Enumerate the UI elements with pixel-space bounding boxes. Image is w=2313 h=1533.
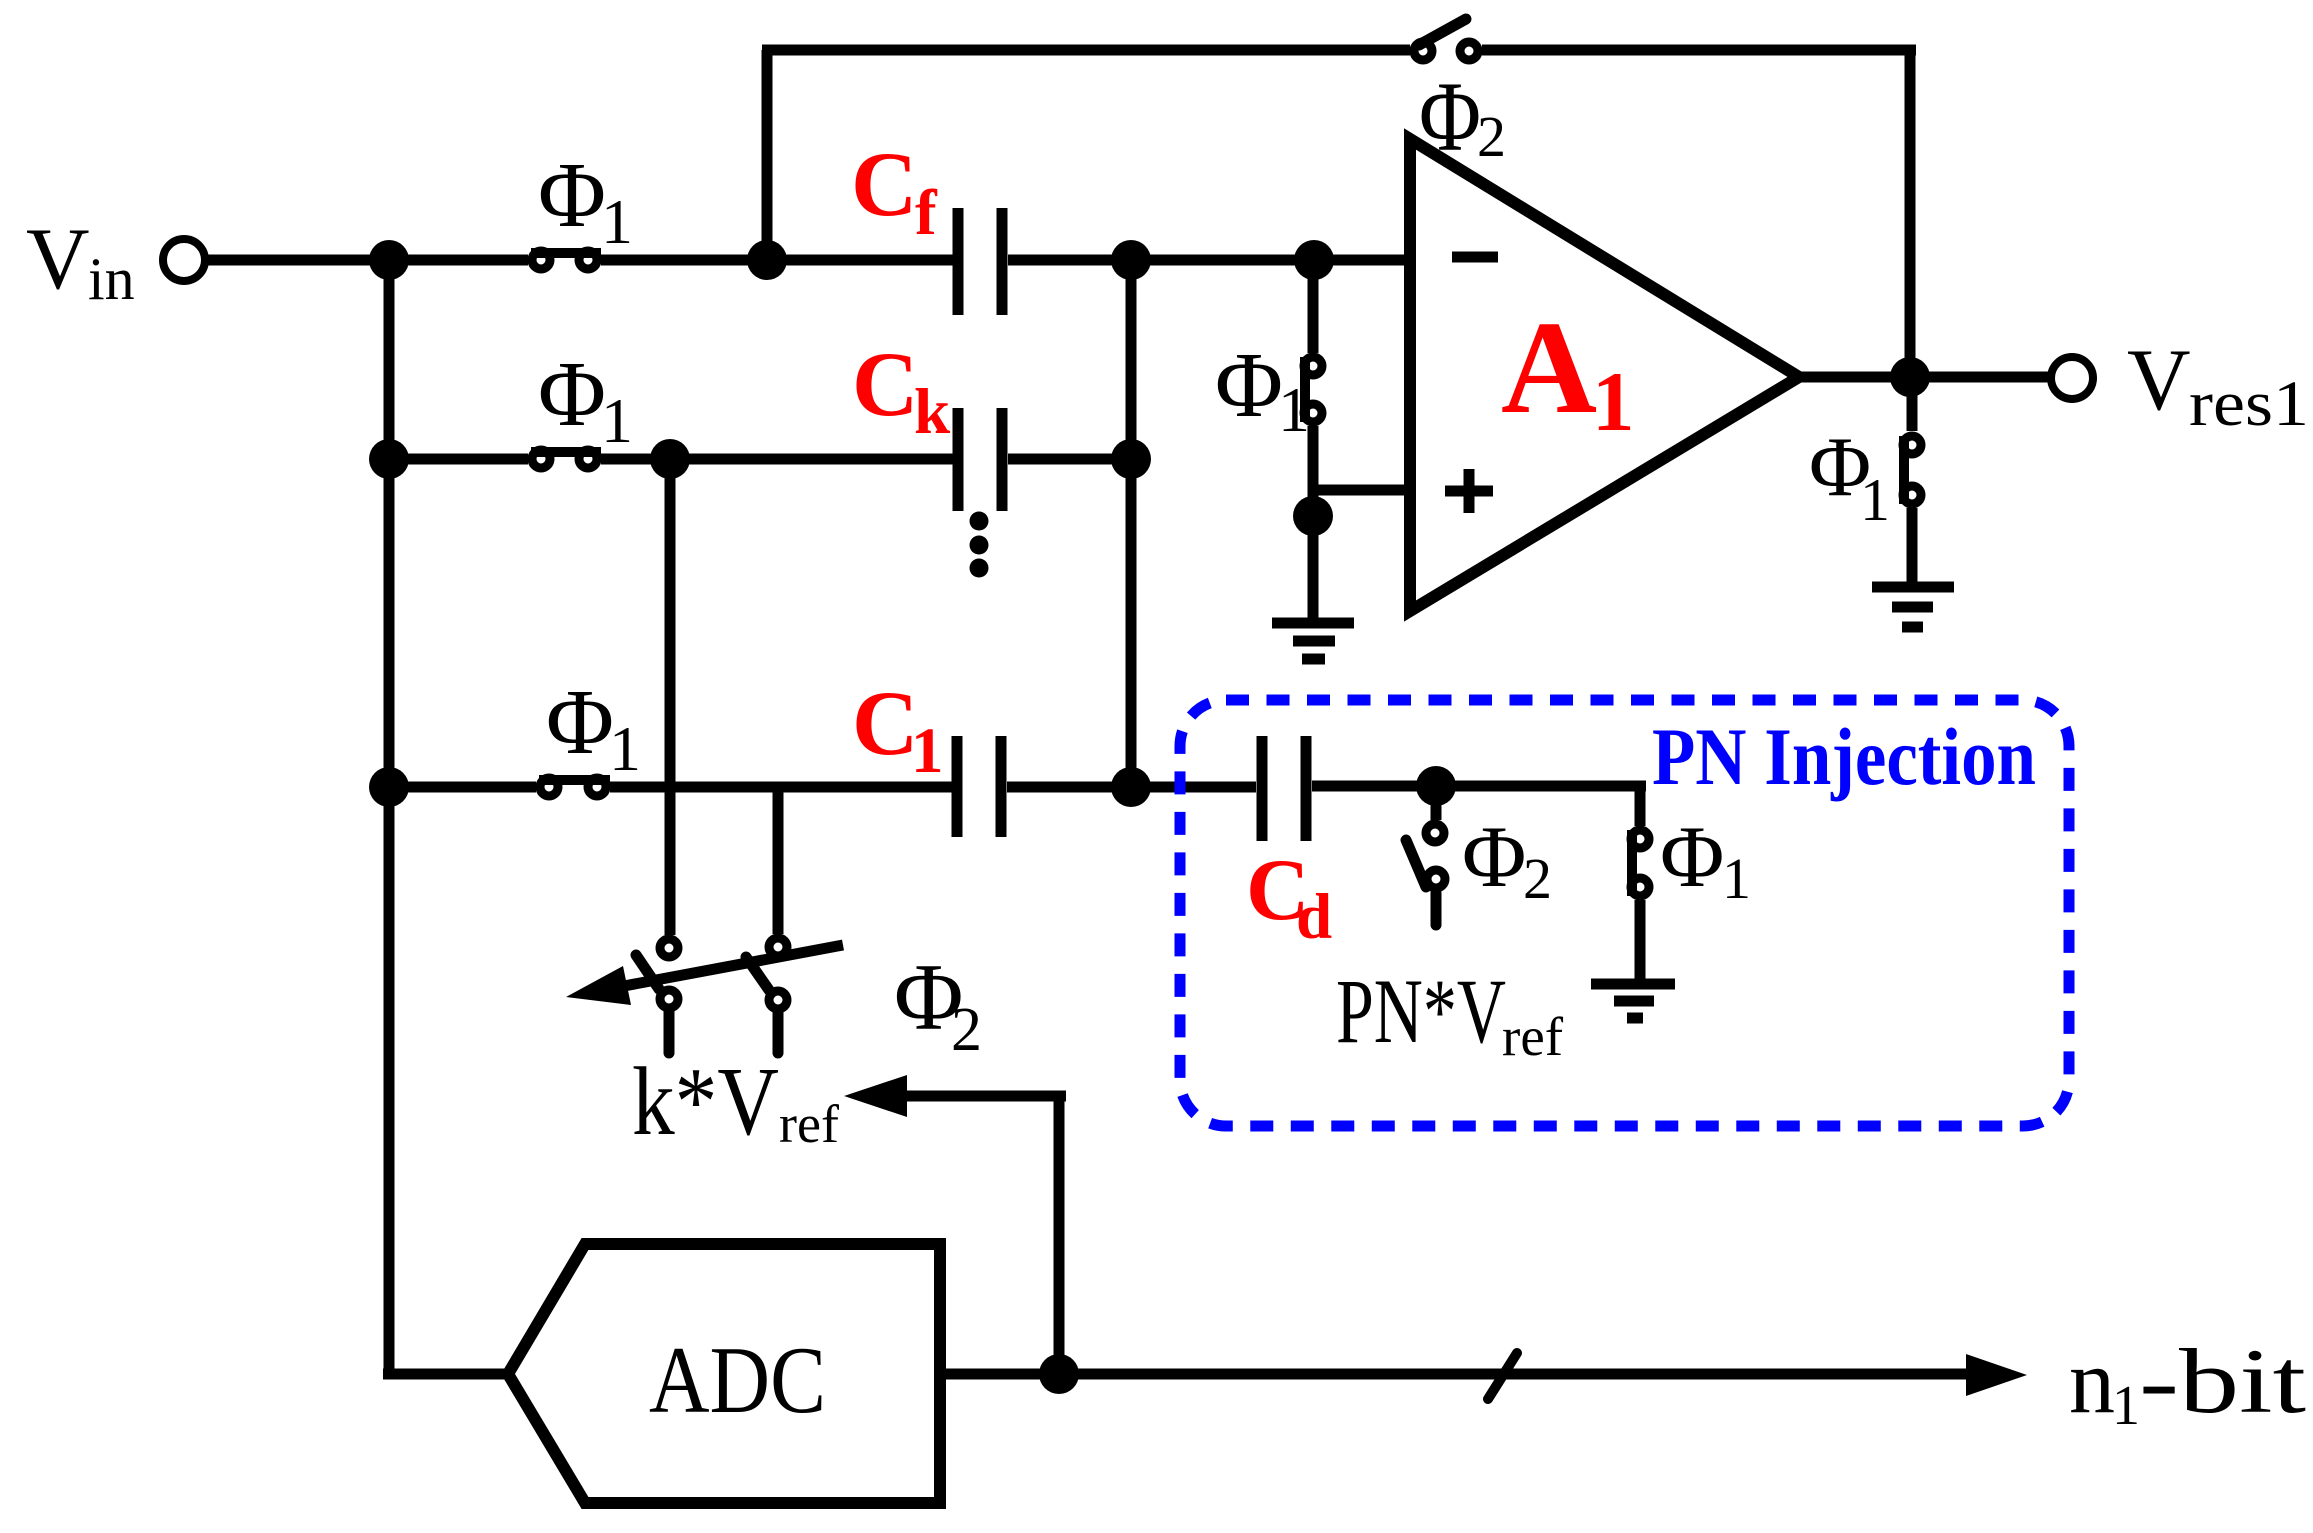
wire plus input	[1313, 485, 1410, 496]
opamp A1	[1410, 139, 1799, 611]
wire output switch stub	[1907, 377, 1918, 431]
switch Phi2 PN (open)	[1406, 824, 1445, 888]
node row2 right junction	[1111, 439, 1151, 479]
svg-text:1: 1	[1722, 846, 1751, 911]
switch Phi1 row2	[531, 450, 601, 468]
ground plus branch	[1272, 623, 1354, 659]
svg-text:1: 1	[601, 186, 633, 257]
svg-text:-bit: -bit	[2139, 1330, 2307, 1432]
wire ADC output	[940, 1369, 1966, 1380]
node minus branch	[1294, 240, 1334, 280]
svg-text:1: 1	[1592, 355, 1635, 449]
wire row3 right	[1007, 782, 1256, 793]
label Phi1 row1	[538, 144, 633, 257]
svg-text:2: 2	[1477, 104, 1506, 169]
svg-text:A: A	[1501, 293, 1597, 441]
svg-text:1: 1	[1860, 467, 1890, 533]
switch Phi2 gang right (open)	[746, 938, 787, 1009]
wire stub below gang right	[773, 1013, 784, 1053]
label Phi1 row2	[538, 343, 633, 456]
label Phi2 PN	[1462, 809, 1552, 911]
node ADC output	[1039, 1354, 1079, 1394]
node PN node	[1416, 766, 1456, 806]
svg-text:2: 2	[951, 996, 982, 1064]
switch Phi1 row1	[531, 251, 601, 269]
svg-text:Φ: Φ	[1215, 334, 1283, 437]
node output	[1890, 357, 1930, 397]
node row3 summing junction	[1111, 767, 1151, 807]
wire stub below gang left	[664, 1012, 675, 1053]
wire Vin to switch	[208, 255, 528, 266]
label Vres1	[2127, 332, 2309, 440]
slash bus width mark	[1488, 1353, 1517, 1399]
wire opamp output	[1799, 372, 2048, 383]
switch Phi1 output (closed vertical)	[1903, 436, 1921, 504]
wire kvref right stub (x=778 row3 to switch)	[773, 787, 784, 934]
label C1	[852, 672, 944, 787]
svg-text:in: in	[88, 246, 135, 312]
terminal Vin	[163, 239, 205, 281]
wire left vertical bus x=389	[384, 260, 395, 1374]
node row1 input junction	[369, 240, 409, 280]
wire feedback top left segment	[762, 45, 1410, 56]
wire summing vertical x=1131	[1126, 260, 1137, 787]
svg-text:Φ: Φ	[546, 671, 614, 774]
dots ellipsis below Ck	[970, 512, 989, 578]
svg-text:V: V	[26, 211, 90, 308]
svg-text:1: 1	[2112, 1375, 2140, 1437]
switch Phi1 box (closed vertical)	[1631, 830, 1649, 896]
label Phi1 box	[1660, 809, 1751, 911]
wire corner down to Phi1 box switch	[1635, 786, 1646, 826]
capacitor C1	[957, 736, 1001, 837]
gang arrow line	[566, 945, 843, 1005]
svg-text:1: 1	[911, 715, 944, 787]
wire feedback vertical left	[762, 50, 773, 260]
svg-text:ADC: ADC	[649, 1327, 826, 1433]
svg-text:k: k	[914, 376, 951, 448]
wire Cd to corner	[1312, 781, 1646, 792]
wire feedback vertical right	[1905, 50, 1916, 377]
node row2 kvref tap	[650, 439, 690, 479]
wire bottom bus corner to ADC	[383, 1369, 508, 1380]
ground output	[1872, 587, 1954, 627]
svg-text:f: f	[915, 177, 938, 249]
svg-text:C: C	[852, 672, 918, 774]
node row3 left junction	[369, 767, 409, 807]
wire row2 middle	[601, 454, 953, 465]
svg-text:k*V: k*V	[632, 1048, 779, 1155]
node row2 left junction	[369, 439, 409, 479]
label Phi1 row3	[546, 671, 641, 784]
wire feedback top right segment	[1482, 45, 1916, 56]
svg-text:1: 1	[609, 713, 641, 784]
wire stub below Phi2 PN	[1431, 893, 1442, 925]
label A1	[1501, 293, 1635, 449]
wire row3 middle	[610, 782, 952, 793]
svg-text:Φ: Φ	[538, 343, 606, 446]
label Vin	[26, 211, 135, 312]
node plus branch	[1293, 496, 1333, 536]
block ADC	[508, 1244, 940, 1503]
label kVref	[632, 1048, 839, 1155]
terminal Vres1	[2051, 357, 2093, 399]
wire row2 left	[389, 454, 528, 465]
opamp plus sign	[1445, 469, 1493, 513]
ground PN box	[1591, 984, 1675, 1018]
wire stub PN node down	[1431, 786, 1442, 820]
wire output switch to ground	[1907, 508, 1918, 582]
svg-text:PN*V: PN*V	[1336, 960, 1506, 1062]
svg-text:V: V	[2127, 332, 2191, 429]
capacitor Cd	[1262, 736, 1306, 841]
svg-text:Φ: Φ	[538, 144, 606, 247]
svg-text:d: d	[1296, 881, 1332, 953]
switch Phi2 top (open)	[1414, 19, 1478, 60]
svg-text:1: 1	[601, 385, 633, 456]
svg-text:C: C	[852, 333, 918, 435]
label Phi1 plus branch	[1215, 334, 1310, 445]
label Cd	[1246, 842, 1332, 953]
label Phi2 top	[1419, 61, 1506, 172]
wire plus branch vertical upper	[1308, 260, 1319, 353]
wire row3 left	[389, 782, 536, 793]
capacitor Ck	[958, 408, 1002, 511]
arrow ADC to kVref	[844, 1075, 1066, 1374]
wire switch to Cf	[601, 255, 953, 266]
wire kvref left stub (x=670 row2 to switch)	[665, 459, 676, 935]
wire plus branch vertical lower	[1308, 426, 1319, 618]
svg-text:1: 1	[1278, 374, 1310, 445]
label PN*Vref	[1336, 960, 1564, 1067]
arrowhead n1-bit	[1966, 1354, 2027, 1396]
svg-text:Φ: Φ	[1462, 809, 1526, 906]
capacitor Cf	[958, 208, 1002, 315]
switch Phi2 gang left (open)	[636, 939, 678, 1008]
label n1-bit	[2069, 1330, 2307, 1437]
svg-text:Φ: Φ	[1660, 809, 1724, 906]
svg-text:res1: res1	[2189, 368, 2309, 440]
opamp minus sign	[1452, 252, 1498, 263]
node summing top	[1111, 240, 1151, 280]
svg-text:ref: ref	[1502, 1006, 1564, 1067]
node feedback tap	[747, 240, 787, 280]
wire row2 right	[1008, 454, 1133, 465]
svg-text:n: n	[2069, 1330, 2115, 1432]
label Phi1 output	[1809, 420, 1890, 533]
switch Phi1 plus branch (closed vertical)	[1304, 357, 1322, 422]
switch Phi1 row3	[539, 778, 610, 796]
svg-text:ref: ref	[779, 1094, 839, 1154]
svg-text:PN Injection: PN Injection	[1652, 711, 2036, 802]
svg-text:C: C	[851, 133, 917, 235]
wire Phi1 box to ground	[1635, 900, 1646, 979]
svg-text:2: 2	[1523, 846, 1552, 911]
box PN Injection (dashed)	[1180, 700, 2069, 1126]
label Ck	[852, 333, 951, 448]
label Phi2 gang	[894, 944, 982, 1064]
wire Cf to opamp minus	[1008, 255, 1410, 266]
label Cf	[851, 133, 938, 249]
